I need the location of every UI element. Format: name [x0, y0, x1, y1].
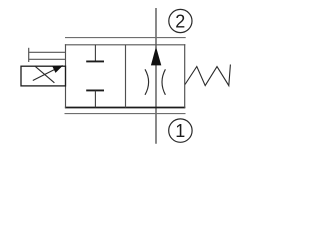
valve envelope right edge — [184, 44, 186, 108]
flow arrow head — [151, 47, 161, 66]
svg-text:1: 1 — [175, 121, 185, 141]
coil lead bracket — [28, 48, 30, 62]
port 2 circle — [169, 9, 192, 32]
throttle left arc — [145, 69, 149, 95]
spring — [185, 65, 230, 86]
valve envelope left edge — [65, 44, 67, 108]
wire position divider — [125, 45, 127, 108]
node port 2 passage upper line — [65, 37, 186, 39]
blocked port top T bar — [86, 60, 104, 62]
wire port line vertical — [155, 8, 157, 144]
proportional arrow shaft — [33, 68, 58, 81]
node port 1 passage lower line — [65, 113, 186, 115]
solenoid diagonal — [35, 66, 54, 83]
coil lead upper — [29, 51, 66, 53]
valve envelope top edge — [65, 44, 185, 46]
port 1 circle — [169, 119, 192, 142]
solenoid coil box — [21, 66, 66, 86]
blocked port bottom T bar — [86, 89, 104, 91]
blocked port bottom T stem — [94, 91, 96, 108]
coil lead lower — [29, 58, 66, 60]
svg-text:2: 2 — [175, 11, 185, 31]
throttle right arc — [162, 69, 165, 95]
blocked port top T stem — [94, 45, 96, 61]
proportional arrow head — [52, 65, 63, 73]
valve envelope bottom edge — [65, 107, 185, 109]
